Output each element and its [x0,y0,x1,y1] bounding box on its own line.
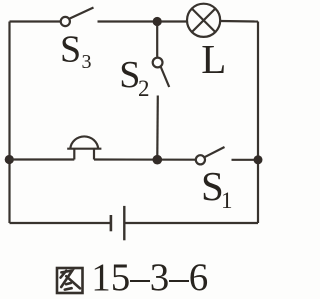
label S3 [60,29,92,74]
lamp L [187,4,220,37]
switch S3 [61,8,94,27]
wire S2 branch lower [156,96,159,157]
wire left vertical [8,22,10,224]
wire S1 right segment [232,159,259,161]
node right junction [254,155,263,164]
node left junction [5,155,14,164]
wire top middle segment [98,20,187,22]
battery [111,206,124,240]
label S1 [201,163,233,213]
electric bell [67,136,101,159]
node middle junction [153,155,163,165]
wire top right segment [220,20,258,23]
wire top left segment [10,20,61,22]
wire middle left segment [10,158,75,160]
hanzi 图 drawn as strokes [57,268,83,293]
caption 图 15-3-6 [57,256,208,299]
wire S2 branch upper [156,25,158,57]
svg-text:2: 2 [138,76,150,101]
svg-text:1: 1 [221,188,233,213]
wire bottom left segment [10,222,111,224]
switch S1 [196,147,225,164]
svg-text:15–3–6: 15–3–6 [91,256,208,299]
wire bottom right segment [124,222,258,224]
wire middle right segment [94,158,196,160]
label S2 [119,54,149,101]
node top junction [153,17,162,26]
wire right vertical [257,22,259,224]
svg-text:L: L [201,36,226,82]
svg-text:S: S [60,29,81,71]
label L [201,36,226,82]
switch S2 [153,58,169,87]
svg-text:3: 3 [82,51,92,73]
